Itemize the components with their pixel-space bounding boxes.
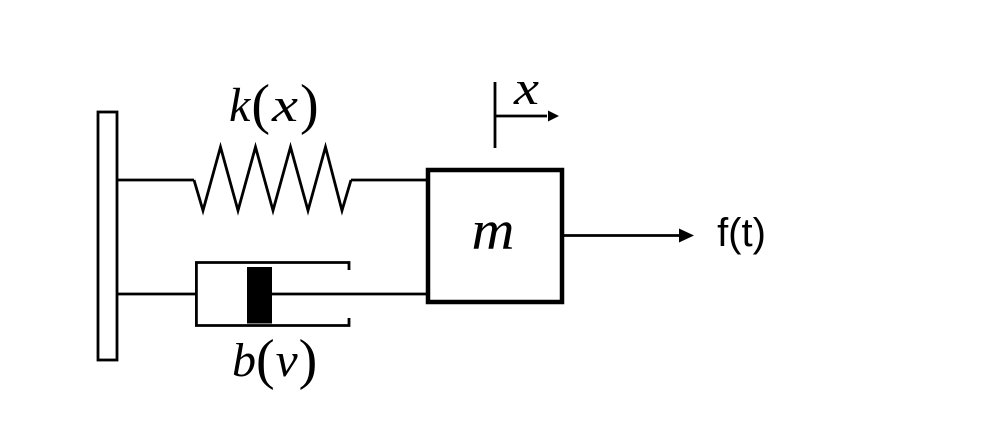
svg-text:m: m — [472, 200, 515, 262]
mass m block — [428, 170, 562, 302]
svg-text:k(x): k(x) — [229, 74, 319, 136]
wire (spring to mass) — [351, 179, 428, 182]
damper piston rod — [272, 293, 428, 296]
svg-text:f(t): f(t) — [717, 211, 766, 255]
spring k(x) — [194, 147, 351, 211]
x-axis arrow — [495, 115, 547, 118]
damper b(v) cylinder — [196, 263, 349, 326]
damper piston — [247, 267, 272, 324]
wire (wall to damper) — [117, 293, 196, 296]
x-axis reference tick — [494, 82, 497, 148]
force arrow f(t) — [564, 234, 680, 237]
svg-text:x: x — [513, 62, 539, 115]
wall (fixed support) — [98, 112, 117, 360]
wire (wall to spring) — [117, 179, 194, 182]
svg-text:b(v): b(v) — [232, 329, 317, 391]
